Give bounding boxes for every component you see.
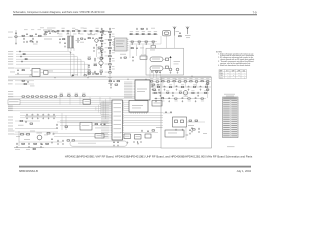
label (206, 77, 209, 80)
label (33, 43, 38, 46)
ground (198, 131, 200, 133)
capacitor C13 (73, 30, 75, 31)
connector table header text (224, 98, 237, 99)
resistor R21 (88, 38, 90, 39)
detector D52 circle (176, 68, 179, 71)
PA capacitor Cq3 (172, 92, 174, 95)
svg-text:KIT: KIT (226, 70, 228, 72)
ground (191, 131, 193, 133)
capacitor C202 (147, 130, 149, 133)
capacitor C208 (158, 89, 160, 92)
ground (32, 117, 34, 119)
ground (172, 95, 174, 97)
capacitor Ce1 (51, 138, 53, 141)
capacitor C304 (198, 128, 200, 131)
PA resistor Rp7 (190, 81, 192, 82)
ASFIC U501 (112, 100, 123, 140)
label (169, 83, 172, 86)
capacitor column (109, 36, 111, 39)
ground (51, 142, 53, 144)
wire (150, 84, 162, 86)
net label (8, 130, 15, 133)
wire vert xb (65, 116, 67, 131)
antenna connector J1 inner (164, 32, 169, 34)
label N connector (186, 135, 189, 136)
capacitor col2 (101, 36, 103, 39)
capacitor Cf1 (151, 71, 153, 74)
label (52, 27, 56, 30)
capacitor C7 (48, 30, 50, 33)
resistor bus R92 (75, 95, 78, 96)
label (148, 30, 151, 33)
resistor bus R86 (50, 96, 53, 97)
ground (96, 44, 98, 46)
capacitor C3 (35, 33, 37, 36)
wire stub (196, 82, 198, 87)
wire FL1 top (70, 31, 72, 36)
resistor R77 (84, 75, 86, 76)
resistor column (109, 39, 112, 40)
PA resistor Rr3 (175, 98, 177, 99)
antenna feed arrow (169, 56, 171, 58)
label (154, 30, 157, 33)
net label xtra (8, 133, 14, 136)
coupler pad B (181, 120, 184, 123)
wire main bus (8, 77, 211, 79)
label (105, 63, 108, 66)
resistor column (109, 31, 112, 32)
label (88, 68, 91, 71)
capacitor C18 (84, 38, 86, 41)
resistor R92 (30, 123, 33, 124)
label ANT2 (185, 34, 191, 37)
svg-text:REF: REF (220, 70, 223, 72)
wire (163, 67, 166, 69)
wire (54, 136, 108, 138)
ground (48, 117, 50, 119)
capacitor C41 (136, 47, 138, 50)
label (166, 89, 169, 92)
antenna ANT1 (173, 27, 176, 36)
resistor R1 (22, 35, 24, 36)
inductor column (109, 50, 111, 52)
label (98, 52, 102, 55)
label (161, 77, 164, 80)
wire vdrop3 (142, 45, 144, 55)
wire top chain (57, 30, 108, 32)
label U402 (82, 124, 90, 127)
label above C (38, 28, 41, 31)
label (108, 76, 112, 79)
label (16, 135, 20, 138)
PA part Pp4 (179, 92, 181, 93)
wire drop (109, 97, 111, 105)
net label bus b (8, 109, 13, 112)
PA part Pp2 (167, 92, 169, 93)
wire (15, 120, 40, 122)
resistor R302 (195, 120, 198, 121)
capacitor C43 (120, 57, 122, 60)
label U203 (154, 102, 161, 105)
value label below (73, 33, 76, 36)
resistor R102 (117, 81, 120, 82)
resistor Rf1 (156, 71, 158, 72)
label U101 (116, 40, 125, 43)
label FL1 (76, 39, 81, 42)
op-amp U301 (32, 69, 40, 77)
label U101b (116, 42, 123, 45)
detector D51 circle (169, 68, 172, 71)
wire PA right col (207, 81, 209, 98)
resistor col2 (101, 32, 104, 33)
ground (132, 60, 134, 62)
PA capacitor Cq7 (197, 92, 199, 95)
label (130, 30, 133, 33)
label cluster (43, 30, 52, 31)
capacitor C9c (36, 41, 38, 44)
ground (158, 92, 160, 94)
resistor bus R93 (83, 95, 86, 96)
resistor bus R82 (31, 96, 34, 97)
label Y1 (150, 49, 155, 52)
label (142, 30, 145, 33)
mixer U101 (115, 38, 128, 51)
label (44, 39, 52, 40)
wire (14, 147, 44, 149)
ground (182, 129, 184, 131)
filter FL6 (135, 135, 142, 140)
capacitor C1 (15, 32, 17, 35)
ground (177, 72, 179, 74)
PA resistor Rr1 (161, 98, 163, 99)
resistor Rn1 (23, 54, 25, 55)
wire (109, 76, 111, 84)
label U401 (97, 135, 103, 136)
label (108, 82, 113, 85)
ground (170, 72, 172, 74)
label above A (24, 28, 28, 31)
pad FL4 out (166, 66, 169, 69)
resistor R203 (152, 130, 155, 131)
ground (17, 73, 19, 75)
capacitor C71 (94, 58, 96, 61)
label (151, 27, 155, 30)
wire drop (99, 97, 101, 105)
junction (127, 79, 128, 80)
net label low (8, 125, 13, 128)
wire main bus (8, 78, 211, 80)
test point dots (133, 141, 134, 142)
resistor R103 (115, 84, 118, 85)
wire drop (89, 97, 91, 105)
wire ctrl bus (8, 104, 140, 106)
ground (152, 89, 154, 91)
varactor D1 (39, 35, 42, 36)
PA part Pp6 (192, 92, 194, 93)
wire to antenna connector (130, 43, 161, 45)
capacitor C36 (146, 28, 148, 31)
resistor R5 (52, 31, 54, 32)
label (49, 70, 54, 73)
ground (62, 143, 64, 145)
label (75, 92, 78, 95)
PA capacitor Cr6 (195, 97, 197, 100)
filter FL1 left bar (68, 36, 70, 48)
resistor col2 (101, 40, 104, 41)
capacitor C77 (94, 71, 96, 74)
capacitor Cb4 (48, 114, 50, 117)
filter FL1 outline (68, 36, 74, 48)
ground (37, 117, 39, 119)
resistor R32 (145, 41, 147, 42)
wire data bus (20, 112, 163, 114)
PA resistor Rr5 (188, 98, 190, 99)
capacitor col2 (101, 54, 103, 57)
PA resistor Rp4 (173, 81, 175, 82)
capacitor C201 (141, 130, 143, 133)
label U202 (132, 105, 143, 106)
wire riser (102, 101, 104, 117)
capacitor C305 (189, 129, 191, 132)
wire (15, 83, 34, 85)
capacitor column (109, 60, 111, 63)
label TP1 (75, 73, 79, 76)
wire corner (16, 51, 71, 53)
label above table (224, 93, 235, 96)
label (167, 77, 170, 80)
wire ANT1 feed (174, 36, 176, 49)
label (112, 57, 115, 60)
svg-text:UHF: UHF (237, 70, 240, 72)
value label below (87, 33, 90, 36)
resistor R30 (131, 41, 133, 42)
capacitor C23 (93, 47, 95, 50)
capacitor C75 (92, 73, 94, 76)
capacitor Cn3 (21, 60, 23, 63)
ground (189, 133, 191, 135)
ground (56, 127, 58, 129)
capacitor C4 (49, 32, 51, 35)
junction (160, 79, 161, 80)
inductor col2 (101, 34, 103, 35)
ground (164, 89, 166, 91)
junction (87, 77, 88, 78)
capacitor C15 (59, 38, 61, 41)
ground (110, 87, 112, 89)
crystal Y1 (151, 46, 156, 49)
resistor R70 (88, 58, 90, 59)
PA resistor Rp6 (184, 81, 186, 82)
capacitor C8 (55, 31, 57, 34)
resistor R78 (100, 71, 102, 72)
junction (29, 76, 30, 77)
label FL3 (152, 59, 160, 60)
capacitor Cd0 (16, 143, 18, 146)
PA capacitor Cp0 (152, 85, 154, 88)
capacitor C34 (154, 34, 156, 35)
ground (67, 32, 69, 34)
ground (53, 117, 55, 119)
label (67, 92, 70, 95)
wire (57, 121, 108, 123)
wire drop (79, 97, 81, 105)
resistor R75 (88, 73, 90, 74)
ground (59, 42, 61, 44)
svg-text:C205: C205 (220, 75, 223, 77)
capacitor C207 (157, 84, 159, 87)
filter FL5 (124, 134, 131, 139)
junction TP1 (72, 75, 74, 77)
resistor R206 (153, 89, 156, 90)
ground (176, 89, 178, 91)
directional coupler box (173, 117, 187, 127)
resistor R4 (44, 34, 46, 35)
label box text (9, 101, 19, 102)
shield can outline (70, 141, 127, 146)
capacitor C9 (26, 41, 28, 44)
label (195, 77, 198, 80)
resistor Rd5 (46, 143, 49, 144)
resistor R80 (65, 126, 68, 127)
PA capacitor Cp2 (164, 85, 166, 88)
PA resistor Rp2 (162, 81, 164, 82)
label (40, 26, 44, 29)
resistor R64 (24, 83, 26, 84)
net label L3 (8, 58, 13, 61)
capacitor C301 (165, 111, 167, 114)
U301 pins (30, 70, 32, 72)
PA inductor Lp7 (193, 86, 195, 87)
net label RX (8, 31, 13, 34)
ground (197, 95, 199, 97)
pad FL3 out (166, 58, 169, 61)
label (104, 42, 107, 45)
wire stub (162, 82, 164, 87)
wire vdrop1 (129, 45, 131, 59)
PA enclosure box (161, 77, 212, 148)
label (10, 71, 15, 74)
ground (64, 46, 66, 48)
wire riser (95, 107, 97, 110)
value label below (80, 33, 83, 36)
label (88, 55, 91, 58)
label (105, 71, 108, 74)
resistor Rn2 (25, 59, 27, 60)
wire data bus (60, 124, 163, 126)
wire vdrop2 (136, 45, 138, 57)
resistor R31 (138, 41, 140, 42)
U101 pins left (113, 39, 115, 41)
label (112, 65, 115, 68)
label (112, 27, 115, 30)
resistor R98 (67, 140, 70, 141)
capacitor Cb0 (26, 114, 28, 117)
PA capacitor Cr4 (182, 97, 184, 100)
wire column bus (109, 28, 111, 76)
label (84, 27, 87, 30)
PA resistor Rp5 (179, 81, 181, 82)
label (193, 83, 196, 86)
label BX1 (85, 100, 90, 103)
resistor R63 (22, 80, 24, 81)
label Q401 (184, 95, 189, 98)
resistor R61 (22, 70, 24, 71)
net label L0 (8, 50, 13, 53)
junction (109, 79, 110, 80)
label U201 (137, 89, 147, 90)
capacitor C206 (117, 141, 119, 144)
ground (100, 66, 102, 68)
wire (88, 76, 106, 78)
U202 pins bottom (130, 112, 132, 114)
wire ctrl bus (8, 96, 140, 98)
ground (131, 43, 133, 45)
PA part Pp8 (204, 92, 206, 93)
ground (182, 100, 184, 102)
capacitor C63 (27, 81, 29, 84)
capacitor C32 (142, 34, 144, 35)
wire (48, 72, 95, 74)
resistor R96 (27, 134, 30, 136)
label (105, 55, 108, 58)
wire (54, 133, 108, 135)
resistor R97 (47, 133, 50, 135)
resistor R51 (179, 36, 182, 37)
antenna connector J1 outer (163, 31, 171, 36)
label (105, 38, 108, 41)
capacitor column (109, 44, 111, 47)
resistor bus R87 (54, 96, 57, 97)
capacitor col2 (101, 28, 103, 31)
label (82, 92, 85, 95)
net label low (8, 119, 13, 122)
capacitor C98 (62, 140, 64, 143)
PA right column parts (207, 83, 209, 84)
footer rule (19, 166, 251, 168)
wire stub (207, 82, 209, 87)
resistor column (109, 72, 112, 73)
resistor R41 (131, 48, 133, 49)
label (24, 138, 30, 141)
wire (19, 141, 62, 143)
capacitor C94b (41, 143, 43, 146)
coupler pad A (175, 120, 178, 123)
label (173, 77, 176, 80)
label (95, 127, 101, 130)
capacitor C97 (57, 140, 59, 143)
net label L1 (8, 53, 13, 56)
label (112, 35, 115, 38)
label (188, 124, 194, 127)
label (62, 27, 65, 30)
PA resistor Rp8 (195, 81, 197, 82)
label (97, 39, 100, 42)
wire (163, 112, 172, 114)
svg-text:7-9: 7-9 (253, 10, 257, 14)
inductor column (109, 42, 111, 44)
transistor Q3 (99, 61, 103, 65)
capacitor C17 (96, 30, 98, 31)
resistor bus R83 (36, 96, 39, 97)
resistor R3 (45, 32, 47, 33)
inductor col2 (101, 43, 103, 44)
harmonic filter FL3 (150, 57, 163, 62)
wire stub (173, 82, 175, 87)
resistor column (109, 56, 112, 57)
U501 pins right (123, 101, 125, 103)
label (140, 47, 144, 50)
power detector box (165, 130, 184, 137)
